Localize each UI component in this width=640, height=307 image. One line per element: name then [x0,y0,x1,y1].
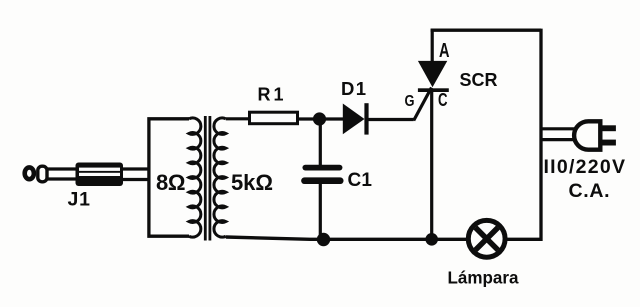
wire secondary bottom [226,237,469,239]
wire node to D1 [320,117,344,120]
svg-text:A: A [439,40,450,62]
SCR triangle [418,61,447,87]
node junction R1/D1/C1 [313,112,326,125]
wire primary loop (top, left, bottom) [149,119,189,236]
lamp circle [468,220,505,257]
wire J1 bottom conductor to transformer [122,178,149,181]
wire secondary top to R1 [226,117,249,120]
transformer T1 secondary winding [214,118,226,237]
wire right vertical [539,29,542,241]
connector J1 tip [25,167,34,179]
connector J1 body sleeve [76,163,124,187]
wire C1 bottom lead [319,182,322,240]
connector J1 ring [38,166,47,182]
wire lamp to right corner [505,238,541,241]
connector J1 shaft bottom line [46,177,78,180]
svg-text:G: G [405,93,415,110]
svg-text:8Ω: 8Ω [156,170,186,195]
svg-text:D1: D1 [341,78,366,99]
diode D1 triangle [343,104,365,135]
SCR cathode bar [418,88,449,92]
wire plug stub top [541,127,577,130]
lamp X [475,228,498,251]
AC plug body [574,121,600,149]
wire C1 top lead [319,119,322,166]
SCR cathode wire [430,91,433,239]
transformer T1 primary winding [189,118,201,237]
capacitor C1 bottom plate [305,177,341,184]
svg-text:5kΩ: 5kΩ [231,170,273,195]
AC plug prong top [600,125,616,131]
wire top run [431,29,541,32]
node junction SCR cathode / lamp [425,233,438,246]
svg-text:SCR: SCR [460,69,498,90]
connector J1 shaft top line [46,167,78,170]
svg-text:Lámpara: Lámpara [448,268,519,288]
resistor R1 [250,112,298,124]
wire J1 top conductor to transformer [122,167,149,170]
svg-text:C: C [438,90,448,110]
capacitor C1 top plate [305,165,339,171]
SCR anode wire [431,29,434,62]
AC plug prong bottom [600,140,616,146]
wire R1 to node [298,117,319,120]
svg-text:C.A.: C.A. [569,180,610,202]
wire plug stub bottom [541,138,577,141]
svg-text:J1: J1 [68,189,91,211]
transformer core [205,116,210,241]
wire gate diagonal [414,88,432,121]
diode D1 cathode bar [364,103,368,134]
svg-text:C1: C1 [348,170,373,191]
node junction C1 bottom [317,233,330,246]
wire D1 to gate bend [368,118,414,121]
